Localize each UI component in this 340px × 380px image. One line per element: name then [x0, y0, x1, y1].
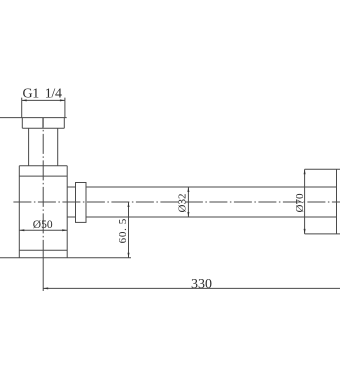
svg-text:G1 1/4: G1 1/4 [22, 86, 62, 101]
arrow 60.5 top [128, 202, 130, 207]
bottle bottom rim line [19, 249, 67, 251]
60.5 dimension line [128, 202, 130, 258]
svg-text:60. 5: 60. 5 [117, 218, 129, 243]
bottle body [19, 166, 67, 258]
inlet nut G1 1/4 top cap [22, 100, 65, 117]
outlet neck [67, 187, 75, 217]
svg-text:Ø70: Ø70 [294, 193, 306, 212]
inlet nut extension stubs [22, 98, 65, 101]
O32 dimension line [187, 187, 189, 217]
arrow O50 left [19, 229, 24, 231]
arrow O32 bottom [187, 212, 189, 217]
arrow G1 dim left [22, 99, 27, 101]
arrow 60.5 bottom [128, 253, 130, 258]
arrow O32 top [187, 187, 189, 192]
horizontal outlet pipe [86, 187, 337, 217]
bottle top rim line [19, 175, 67, 177]
vertical centerline [42, 118, 44, 258]
arrow O70 top [304, 169, 306, 174]
datum base line [0, 257, 131, 259]
horizontal centerline [13, 201, 340, 203]
arrow O70 bottom [304, 229, 306, 234]
inlet nut lower band [22, 118, 64, 129]
arrow O50 right [62, 229, 67, 231]
O50 dimension line [19, 229, 67, 231]
svg-text:Ø32: Ø32 [176, 194, 188, 213]
svg-text:330: 330 [191, 277, 212, 292]
330 extension line [42, 258, 44, 291]
vertical inlet pipe [29, 128, 58, 166]
wall flange [305, 169, 340, 234]
svg-text:Ø50: Ø50 [33, 219, 53, 231]
arrow 330 left [43, 287, 48, 289]
wire leader line top-left [0, 117, 67, 119]
inlet nut hex facet line [42, 118, 44, 129]
arrow G1 dim right [60, 99, 65, 101]
outlet nut [76, 183, 87, 223]
flange left edge / dim line O70 [304, 169, 306, 234]
330 dimension line [43, 287, 340, 289]
